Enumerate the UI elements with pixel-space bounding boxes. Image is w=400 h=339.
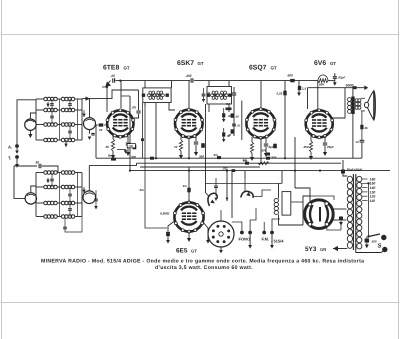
wire 6SK7 bottom drop — [188, 138, 190, 159]
svg-text:GT: GT — [191, 249, 197, 254]
wire transformer to speaker driver — [361, 98, 365, 111]
label tube V2 6SK7GT — [177, 60, 204, 67]
tube V4 6V6GT output — [305, 109, 334, 139]
wire row 1 upper bank — [36, 98, 82, 100]
variable capacitor CV2 tuning right — [84, 118, 96, 140]
switch S1 mains — [367, 234, 380, 238]
wire socket ground — [219, 210, 223, 253]
wire transformer bottom drop — [352, 114, 354, 158]
wire transformer bottom arrow — [333, 246, 347, 251]
junction dots mid rails — [129, 157, 321, 172]
coil L8a oscillator bank row 4 — [44, 215, 58, 219]
svg-text:10: 10 — [356, 140, 360, 144]
capacitor C25 at x216 — [214, 178, 218, 201]
trimmer C3 upper bank — [50, 110, 54, 124]
wire drop to 6TE8 plate — [120, 81, 122, 108]
wire upper bank inner bus 2 — [77, 99, 79, 140]
svg-text:S: S — [378, 243, 382, 250]
svg-text:6E5: 6E5 — [176, 248, 188, 255]
wire drop to IF1 left — [144, 81, 146, 88]
coil L4b antenna bank row 4 — [61, 138, 74, 142]
wire transformer top left — [343, 160, 347, 176]
transformer T4 voltage taps — [362, 177, 375, 203]
trimmer C2 upper bank — [68, 99, 72, 110]
label S switch — [378, 243, 382, 250]
capacitor C24 500 mains — [365, 237, 377, 244]
svg-text:F.M.: F.M. — [262, 237, 270, 242]
svg-text:GT: GT — [198, 61, 204, 66]
svg-text:.05μF: .05μF — [338, 76, 346, 80]
svg-text:2k: 2k — [364, 126, 369, 130]
label tube V1 6TE8GT — [103, 65, 130, 72]
svg-text:GT: GT — [271, 66, 277, 71]
trimmer C9 lower bank — [68, 203, 72, 217]
wire 5Y3 bottom lead — [327, 226, 341, 230]
plug pin top — [381, 235, 386, 240]
capacitor C14 .05uF at rail end — [333, 73, 346, 86]
junction blob x142 — [141, 138, 144, 141]
potentiometer P1 volume — [205, 192, 217, 206]
tube V3 6SQ7GT detector — [245, 108, 275, 140]
wire cathode bar 6TE8 — [117, 149, 127, 153]
node T (ground terminal) — [8, 155, 19, 160]
wire drop to 6V6 plate — [317, 81, 319, 109]
capacitor C5 .05 to hexode grid — [132, 90, 141, 118]
wire row 4 lower bank — [36, 216, 82, 218]
svg-text:250: 250 — [303, 145, 309, 149]
wire 6E5 cathode ground — [187, 232, 191, 242]
plug pin bottom — [382, 247, 387, 252]
tube V6 5Y3GR rectifier — [305, 200, 334, 229]
wire upper bank right bus — [81, 99, 83, 140]
wire CV2 to grid line — [89, 99, 91, 118]
svg-text:6TE8: 6TE8 — [103, 65, 119, 72]
wire grid line with arrow — [82, 97, 96, 101]
switch arrow lower bank b — [82, 187, 85, 193]
antenna arrow top-left — [105, 81, 111, 87]
transformer T3 secondary loops — [355, 99, 361, 109]
wire transformer bottom to plug — [356, 250, 384, 253]
wire vertical x295 — [294, 137, 296, 188]
resistor R11 diode load — [231, 113, 239, 118]
speaker LS1 horn — [365, 91, 376, 120]
wire 5Y3 plate leads — [333, 209, 347, 220]
ground arrow FONO — [248, 234, 252, 248]
wire vertical x232 to fono — [231, 171, 233, 218]
capacitor C20 25uF 6V6 — [323, 136, 334, 156]
svg-text:8m: 8m — [108, 154, 113, 158]
svg-text:6SQ7: 6SQ7 — [249, 65, 267, 72]
label tube V4 6V6GT — [314, 60, 336, 67]
transformer T4 primary winding — [357, 176, 362, 249]
svg-text:30μF+50μF: 30μF+50μF — [347, 168, 363, 172]
svg-text:.01: .01 — [237, 124, 241, 128]
wire vertical x205 to pot — [205, 104, 207, 192]
capacitor C21 electrolytic right — [339, 217, 343, 231]
transformer T3 primary loops — [348, 98, 352, 114]
svg-text:50: 50 — [236, 115, 240, 119]
trimmer C10 lower bank bottom — [63, 217, 82, 233]
choke shield box — [282, 192, 303, 216]
capacitor C17 cathode 6TE8 — [126, 136, 137, 159]
ground arrow mains cap — [365, 243, 369, 249]
potentiometer P2 tone — [241, 178, 271, 198]
svg-text:6V6: 6V6 — [314, 60, 326, 67]
wire vertical x130 — [121, 96, 130, 171]
wire top B+ rail — [109, 80, 335, 82]
wire grid line up-over — [96, 90, 139, 99]
label tube V5 6E5GT — [176, 248, 197, 255]
svg-text:A.: A. — [8, 145, 12, 150]
coil L5b oscillator bank row 1 — [61, 171, 74, 175]
svg-text:0,5MΩ: 0,5MΩ — [160, 212, 170, 216]
svg-text:1,5: 1,5 — [302, 87, 307, 91]
wire drop to 6SQ7 plate — [260, 81, 262, 108]
IF transformer T2 — [207, 87, 232, 105]
wire pot connections — [226, 171, 245, 201]
wire tap bus down to switch — [367, 182, 369, 236]
svg-text:70: 70 — [174, 145, 178, 149]
svg-text:d’uscita 3,5 watt. Consumo 60: d’uscita 3,5 watt. Consumo 60 watt. — [155, 265, 253, 271]
ground arrow electrolytic — [339, 222, 343, 226]
wire vertical x282 choke top — [281, 171, 283, 184]
capacitor C22 series — [356, 140, 365, 144]
ground arrow below T — [15, 159, 19, 168]
variable capacitor CV4 osc right — [83, 191, 96, 204]
resistor R3 50k with bypass arc — [318, 75, 328, 87]
svg-text:.01: .01 — [206, 91, 211, 95]
svg-text:MINERVA RADIO - Mod. 515/4 ADI: MINERVA RADIO - Mod. 515/4 ADIGE - Onde … — [41, 259, 364, 265]
capacitor C23 electrolytic 30+50uF — [341, 168, 362, 174]
coil L7b oscillator bank row 3 — [61, 201, 74, 205]
resistor R4 cathode 6TE8 — [106, 135, 116, 159]
component blobs on buses — [108, 153, 270, 165]
capacitor C13 .25 on rail — [185, 74, 193, 83]
transformer T4 core — [353, 174, 355, 250]
page border top — [2, 34, 399, 36]
junction dot x107 — [102, 86, 108, 88]
resistor R10 2k black — [360, 111, 368, 140]
svg-text:C4: C4 — [226, 102, 230, 106]
wire x107 down to 6TE8 — [106, 87, 108, 112]
terminal FM left — [262, 222, 266, 234]
wire diode line x234 — [226, 87, 236, 136]
switch arrow upper bank b — [64, 140, 67, 147]
capacitor C18 cathode 6SK7 — [194, 136, 205, 159]
svg-text:GR: GR — [320, 247, 326, 252]
svg-text:50k: 50k — [319, 83, 324, 87]
wire IF1 bottom drop — [155, 103, 157, 158]
wire drop to IF1 right — [171, 81, 173, 88]
svg-text:30: 30 — [228, 114, 232, 118]
wire row 2 upper bank — [36, 109, 82, 111]
wire B+ bus y170.6 — [130, 170, 390, 172]
wire 5Y3 filament loop — [303, 196, 334, 225]
resistor R1 grid leak black — [96, 123, 106, 132]
wire IF1 bottom leads — [145, 103, 175, 111]
caption line 2 — [155, 265, 253, 271]
wire drop x285 coupling 0.25 — [277, 81, 287, 160]
label tube V3 6SQ7GT — [249, 65, 277, 72]
coil L2a antenna bank row 2 — [44, 108, 58, 112]
ground arrow FM — [270, 234, 274, 248]
coil L7a oscillator bank row 3 — [44, 201, 58, 205]
wire IF1 drop to 6E5 AVC — [139, 103, 168, 228]
wire drop to IF2 right — [228, 81, 230, 87]
resistor R12 diode load 2 — [227, 129, 234, 138]
tube V2 6SK7GT IF amplifier — [174, 108, 204, 139]
svg-text:2μF: 2μF — [268, 145, 274, 149]
trimmer C4 upper bank — [68, 125, 72, 141]
resistor R7 cathode 6V6 250 — [303, 136, 314, 160]
svg-text:5000: 5000 — [346, 84, 354, 88]
wire antenna lead-in — [17, 100, 36, 144]
svg-text:50: 50 — [36, 161, 40, 165]
svg-text:50k: 50k — [262, 149, 267, 153]
coil L8b oscillator bank row 4 — [61, 215, 74, 219]
svg-text:.05: .05 — [111, 74, 116, 78]
wire lower bank left bus — [31, 173, 36, 217]
page border bottom — [2, 302, 399, 304]
wire row 3 lower bank — [36, 202, 82, 204]
svg-text:500: 500 — [372, 240, 377, 244]
capacitor C28 on diode line — [232, 124, 241, 128]
switch arrow upper bank a — [46, 102, 49, 107]
switch arrow upper bank right — [82, 110, 85, 117]
wire drop to 6SK7 plate — [188, 81, 190, 108]
capacitor C26 AVC a — [222, 108, 232, 122]
wire 6SQ7 drop — [260, 138, 262, 163]
resistor R13 100 boxed — [127, 144, 135, 148]
capacitor C12 .05 on rail — [111, 74, 122, 83]
wire upper bank left bus — [30, 99, 36, 140]
svg-text:- 515/4: - 515/4 — [271, 239, 284, 244]
wire 6TE8 grid to AVC bus — [95, 125, 97, 158]
wire osc coupling left — [14, 166, 25, 198]
svg-text:1m: 1m — [183, 184, 188, 188]
svg-text:70: 70 — [228, 133, 232, 137]
switch arrow lower bank a — [46, 178, 49, 183]
coil L1b antenna bank row 1 — [61, 97, 74, 101]
wire upper bank inner bus 1 — [59, 99, 61, 140]
wire oscillator AVC line — [89, 163, 136, 165]
svg-text:7m: 7m — [243, 159, 248, 163]
label .011 cap on bus — [222, 167, 235, 172]
svg-text:GT: GT — [124, 66, 130, 71]
capacitor C16 diode black bar — [226, 108, 232, 111]
label F.M. 515/4 — [262, 237, 285, 244]
terminal FONO right — [248, 208, 256, 234]
coil L1a antenna bank row 1 — [44, 97, 58, 101]
resistor R5 cathode 6SK7 — [174, 136, 183, 159]
svg-text:30: 30 — [106, 145, 110, 149]
wire P1 to choke y183 — [206, 182, 283, 184]
transformer T4 secondary HT winding — [347, 176, 352, 248]
terminal FONO left — [232, 222, 244, 234]
wire lower bank right bus — [81, 173, 83, 217]
wire drop to IF2 left — [208, 81, 210, 87]
svg-text:110: 110 — [370, 199, 376, 203]
coil L3a antenna bank row 3 — [44, 123, 58, 127]
wire 6V6 plate to transformer — [331, 88, 345, 118]
IF transformer T1 — [142, 88, 171, 103]
capacitor C19 2uF 6SQ7 — [264, 137, 277, 160]
trimmer C1 upper bank — [50, 99, 54, 110]
svg-text:FONO: FONO — [239, 237, 251, 242]
label 5000 output transformer — [346, 84, 354, 88]
svg-text:T.: T. — [8, 156, 11, 161]
caption line 1 — [41, 259, 364, 265]
wire speaker return to bus — [361, 143, 363, 158]
svg-text:.25F: .25F — [185, 74, 193, 78]
resistor R9 0.5M 6E5 grid — [160, 212, 175, 244]
capacitor C11 osc padder — [94, 190, 98, 209]
coil L6a oscillator bank row 2 — [44, 185, 58, 189]
svg-text:GT: GT — [330, 61, 336, 66]
trimmer C7 lower bank — [50, 173, 54, 188]
wire drop 6V6 grid — [307, 88, 309, 109]
wire bus y167 — [140, 166, 260, 168]
wire bus y163 — [137, 162, 342, 164]
wire 6E5 top feed — [183, 167, 191, 202]
wire row 3 upper bank — [36, 124, 82, 126]
transformer T3 output core — [351, 88, 354, 114]
wire 6E5 target lead — [203, 222, 210, 244]
trimmer C8 lower bank — [68, 187, 72, 203]
capacitor C6 50 osc coupling — [14, 161, 58, 173]
tube V1 6TE8GT triode-hexode — [106, 109, 135, 138]
resistor R8 50k blob — [262, 149, 271, 156]
page border left — [1, 0, 3, 339]
svg-text:100: 100 — [128, 144, 133, 148]
svg-text:6SK7: 6SK7 — [177, 60, 194, 67]
wire osc grid to 6TE8 — [88, 165, 90, 191]
capacitor C27 AVC b — [222, 128, 232, 142]
wire row 1 lower bank — [36, 172, 82, 174]
svg-text:5m: 5m — [214, 153, 219, 157]
coil L5a oscillator bank row 1 — [44, 171, 58, 175]
socket X1 tube socket bottom view — [208, 221, 234, 247]
terminal FM right — [270, 219, 280, 234]
svg-text:5Y3: 5Y3 — [305, 246, 317, 253]
label tube V6 5Y3GR — [305, 246, 326, 253]
wire lower bank inner bus 1 — [59, 173, 61, 217]
tube V5 6E5GT magic eye — [173, 201, 204, 233]
label FONO — [239, 237, 251, 242]
coil L4a antenna bank row 4 — [44, 138, 58, 142]
svg-text:.05: .05 — [132, 106, 137, 110]
resistor R2 600 on rail — [288, 74, 295, 83]
svg-text:25μF: 25μF — [326, 145, 334, 149]
svg-text:150k: 150k — [270, 156, 277, 160]
page border right — [398, 0, 400, 339]
wire vertical x142 — [142, 103, 144, 158]
variable capacitor CV1 tuning left — [25, 119, 36, 138]
resistor R6 cathode 6SQ7 — [250, 137, 254, 161]
coil L3b antenna bank row 3 — [61, 123, 74, 127]
wire diode line x241.8 — [241, 101, 243, 141]
wire bus y158 — [96, 157, 362, 159]
node A (antenna terminal) — [8, 144, 19, 154]
wire row 2 lower bank — [36, 186, 82, 188]
variable capacitor CV3 osc left — [25, 193, 36, 204]
svg-text:10: 10 — [99, 128, 103, 132]
wire B+ to 5Y3 — [295, 188, 310, 204]
wire IF2 bottom leads — [209, 104, 229, 112]
choke L10 filter — [274, 183, 303, 225]
svg-text:600: 600 — [288, 74, 294, 78]
svg-text:2m: 2m — [139, 188, 145, 192]
coil L2b antenna bank row 2 — [61, 108, 74, 112]
coil L6b oscillator bank row 2 — [61, 185, 74, 189]
wire drop x299 decoupling — [297, 81, 306, 97]
wire plate line to speaker — [308, 85, 369, 90]
wire lower bank inner bus 2 — [77, 173, 79, 217]
svg-text:0,25: 0,25 — [277, 92, 283, 96]
capacitor C15 .01 6SK7 grid — [202, 88, 211, 102]
wire row 4 upper bank — [36, 139, 82, 141]
